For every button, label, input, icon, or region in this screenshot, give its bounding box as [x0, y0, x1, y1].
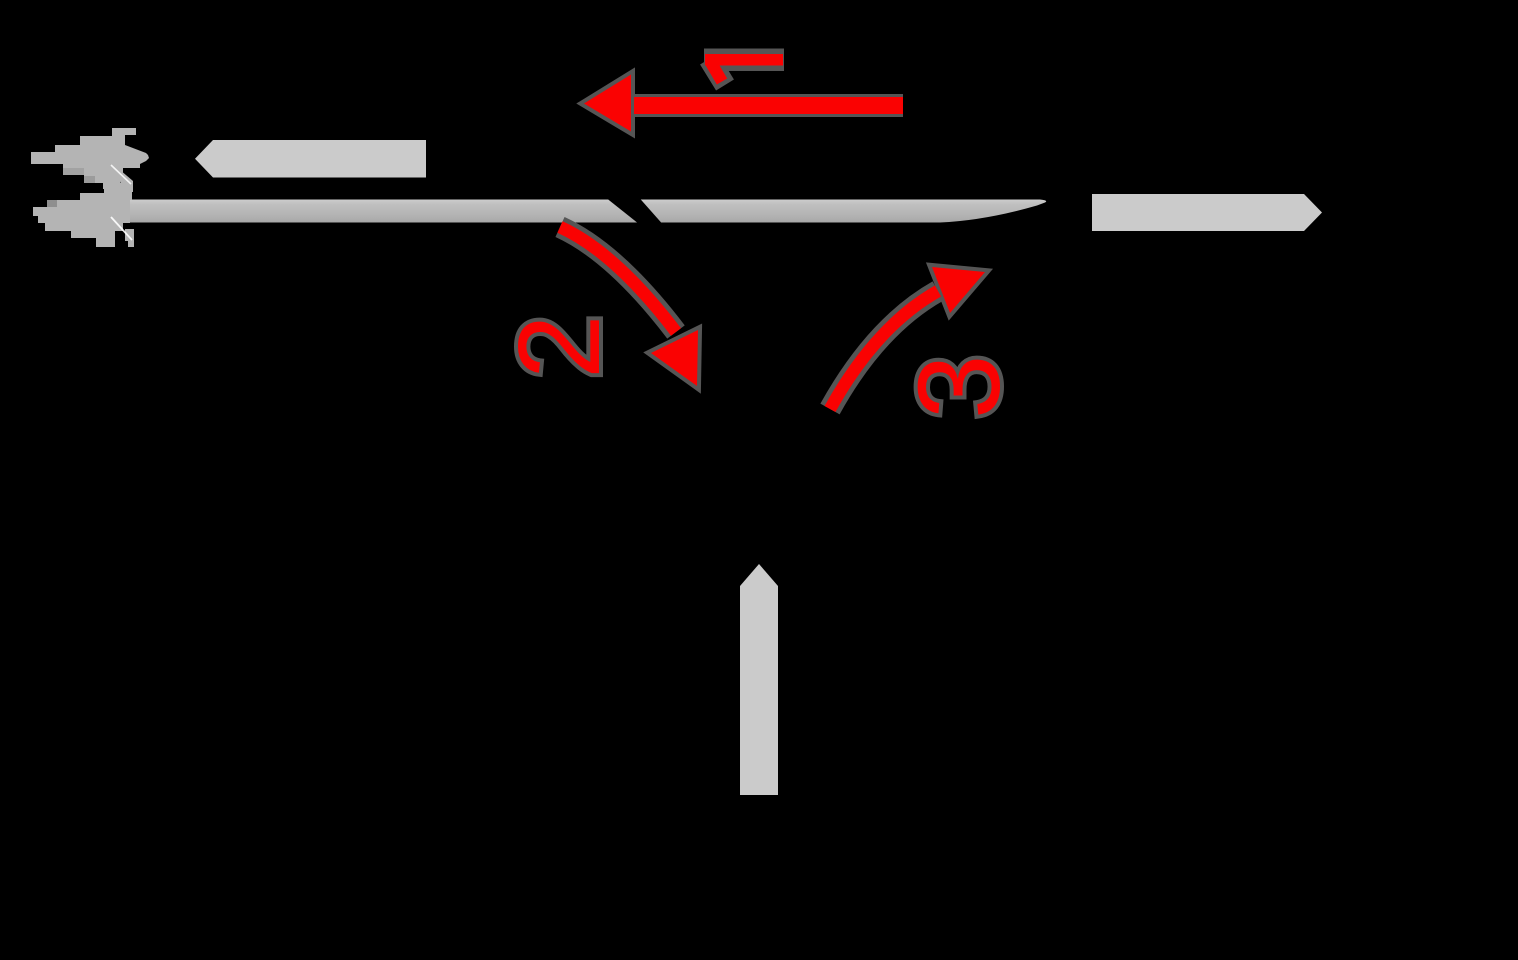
svg-text:2: 2: [494, 314, 624, 379]
svg-text:3: 3: [894, 354, 1024, 419]
